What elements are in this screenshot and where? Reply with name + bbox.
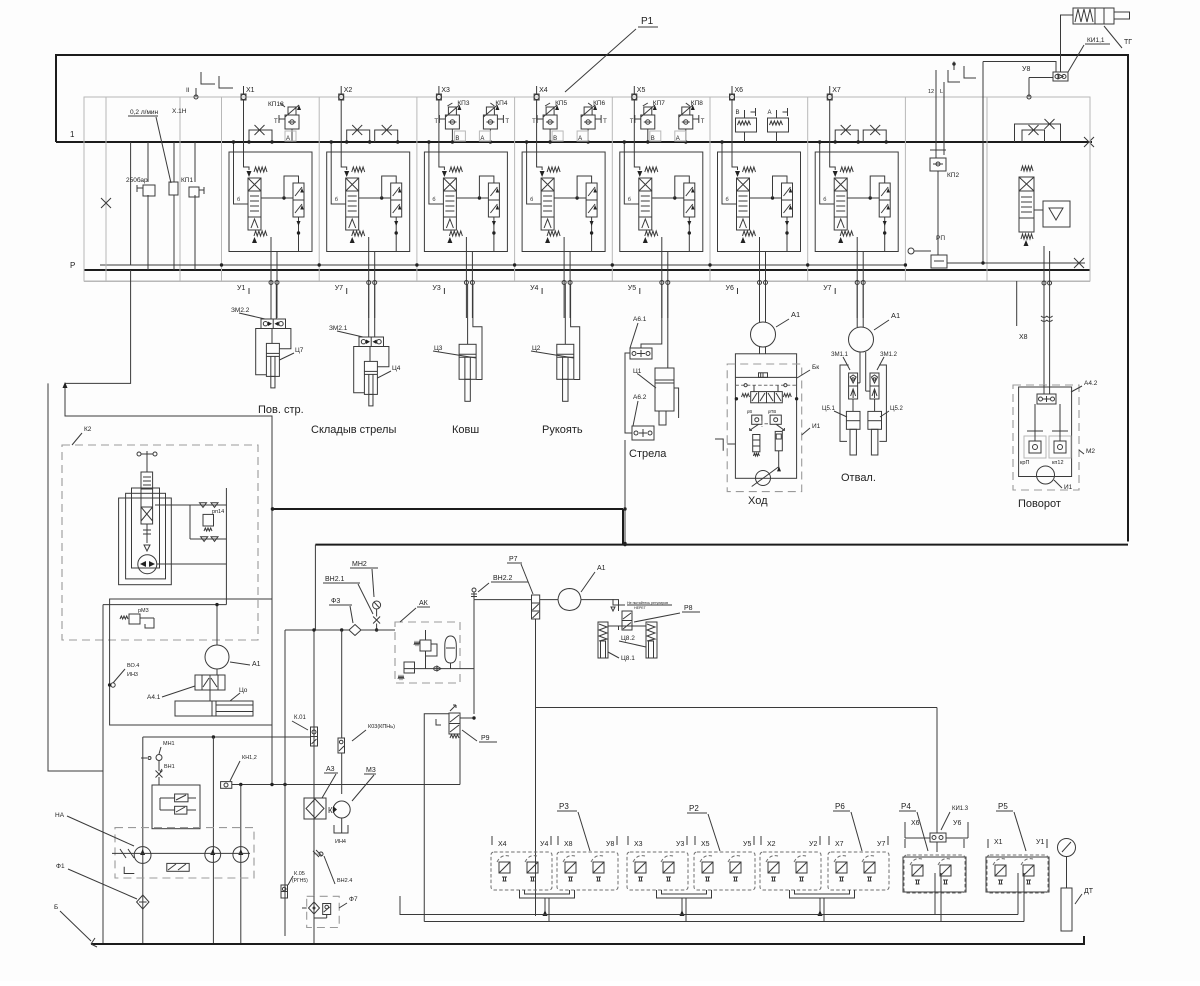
- wire: feed: [722, 142, 737, 204]
- travel block body: [735, 354, 796, 479]
- port box A: [285, 131, 296, 141]
- bypass 2 with closed port: [375, 130, 398, 142]
- valve M1: [189, 187, 199, 197]
- cylinder Ц2: [557, 344, 574, 379]
- section divider: [709, 97, 711, 282]
- wire: spool to secondary: [847, 197, 879, 199]
- svg-text:Р2: Р2: [689, 804, 699, 813]
- wire: [641, 285, 662, 349]
- svg-text:КИ1,1: КИ1,1: [1087, 37, 1105, 44]
- valve A6.2: [632, 426, 654, 440]
- svg-text:Х.1Н: Х.1Н: [172, 108, 187, 115]
- break symbol top-left: [201, 72, 215, 84]
- spool spring top: [645, 167, 658, 172]
- svg-text:Х6: Х6: [911, 820, 920, 827]
- svg-text:Р4: Р4: [901, 802, 911, 811]
- cylinder Ц7: [266, 343, 279, 376]
- svg-text:Р9: Р9: [481, 735, 490, 742]
- wire: [564, 285, 566, 345]
- section divider: [514, 97, 516, 282]
- svg-text:КП6: КП6: [593, 100, 605, 107]
- svg-text:Р8: Р8: [684, 605, 693, 612]
- wire: [935, 70, 937, 158]
- hydraulic motor A1 (travel): [751, 322, 776, 347]
- wire: C8 manifold: [608, 625, 646, 627]
- main spool: [248, 178, 261, 230]
- wire: test line: [982, 62, 984, 264]
- relief valve КП6: [584, 107, 592, 115]
- wire: work line B: [471, 252, 473, 319]
- orifice element: [759, 373, 768, 378]
- svg-text:А3: А3: [326, 766, 335, 773]
- leader: [877, 357, 884, 370]
- svg-text:У3: У3: [676, 841, 684, 848]
- wire: [270, 285, 272, 320]
- wire: TG to KI1.1: [1061, 15, 1074, 72]
- valve 250bar: [143, 185, 155, 196]
- leader KI1.1: [1068, 45, 1084, 72]
- secondary valve: [782, 183, 793, 217]
- lock valve ЗМ2.2: [261, 319, 286, 329]
- wire: secondary drain: [786, 217, 788, 252]
- filter block F7: [307, 896, 340, 927]
- valve KP1: [169, 182, 178, 195]
- section body outline: [522, 152, 605, 252]
- svg-text:У1: У1: [237, 285, 245, 292]
- svg-text:К03(КПНь): К03(КПНь): [368, 724, 395, 730]
- wire: tank line left: [48, 383, 103, 771]
- wire: KP1 drain: [194, 195, 196, 270]
- wire: spool to secondary: [652, 197, 684, 199]
- svg-text:Т: Т: [603, 119, 607, 125]
- wire: [735, 376, 796, 378]
- brake valve left: [753, 435, 760, 452]
- wire: [1059, 404, 1061, 431]
- bypass 2 with closed port: [863, 130, 886, 142]
- svg-text:КП4: КП4: [495, 100, 507, 107]
- servo elements: [146, 524, 148, 543]
- secondary valve: [488, 183, 499, 217]
- svg-text:У4: У4: [540, 841, 548, 848]
- section divider: [416, 97, 418, 282]
- wire: [1034, 404, 1036, 431]
- wire: KP1 drain: [147, 195, 149, 270]
- connector pair Х8/У8: [557, 852, 618, 890]
- svg-text:Х1: Х1: [994, 839, 1003, 846]
- cylinder Ц3: [459, 344, 476, 379]
- wire: pressure bus 1: [56, 141, 1092, 143]
- port box A: [577, 131, 588, 141]
- control cylinder Co: [175, 701, 253, 716]
- svg-text:У7: У7: [877, 841, 885, 848]
- svg-text:0,2 л/мин: 0,2 л/мин: [130, 109, 159, 116]
- svg-text:У1: У1: [1036, 839, 1044, 846]
- connector Х4: [534, 94, 539, 100]
- svg-text:М2: М2: [1086, 448, 1095, 455]
- wire: drop to bus: [624, 440, 626, 544]
- wire: P4 port bracket: [905, 837, 930, 839]
- wire: lower header: [315, 544, 1128, 546]
- svg-text:В: В: [553, 136, 557, 142]
- plugged port X on bus 1: [1084, 137, 1094, 147]
- spool spring top: [449, 167, 462, 172]
- svg-text:Х2: Х2: [767, 841, 776, 848]
- svg-text:А1: А1: [252, 661, 261, 668]
- wire: to P9: [473, 600, 475, 714]
- svg-text:Х2: Х2: [344, 87, 353, 94]
- svg-text:250бар: 250бар: [126, 176, 148, 184]
- svg-text:И1: И1: [812, 423, 821, 430]
- svg-text:II: II: [186, 87, 190, 94]
- svg-text:Ф1: Ф1: [56, 863, 65, 870]
- wire: AK internal: [404, 668, 474, 670]
- secondary valve: [391, 183, 402, 217]
- cylinder Ц4: [364, 361, 377, 394]
- wire: [376, 609, 378, 617]
- wire: P9 drain: [424, 714, 449, 922]
- spool spring top: [743, 167, 756, 172]
- svg-text:Ковш: Ковш: [452, 424, 479, 436]
- wire: [450, 663, 452, 669]
- main spool: [443, 178, 456, 230]
- wire: drain bus 2: [424, 921, 1024, 923]
- valve A6.1: [630, 348, 652, 359]
- valve block frame: [84, 97, 1090, 281]
- connector Х5: [632, 94, 637, 100]
- block NA dashed: [115, 828, 254, 878]
- svg-text:Х7: Х7: [832, 87, 841, 94]
- svg-text:Х5: Х5: [637, 87, 646, 94]
- wire: [759, 285, 761, 323]
- svg-text:б: б: [335, 197, 338, 203]
- wire: [368, 285, 370, 338]
- svg-text:Ц5.2: Ц5.2: [890, 406, 903, 412]
- svg-text:крП: крП: [1020, 460, 1029, 466]
- svg-text:Т: Т: [274, 119, 278, 125]
- wire: feed from band to pumps: [130, 142, 132, 265]
- secondary valve: [684, 183, 695, 217]
- wire: [145, 618, 154, 628]
- svg-text:У6: У6: [953, 820, 961, 827]
- wire: P7 line: [474, 599, 532, 601]
- connector pair Х4/У4: [491, 852, 552, 890]
- svg-text:КП7: КП7: [653, 100, 665, 107]
- svg-text:Р: Р: [70, 261, 75, 270]
- svg-text:У8: У8: [1022, 66, 1030, 73]
- leader B: [60, 911, 91, 941]
- svg-text:ВН2.2: ВН2.2: [493, 575, 513, 582]
- connector Х6: [730, 94, 735, 100]
- check point KI1.1: [1053, 72, 1068, 81]
- travel control valve: [751, 392, 783, 403]
- wire: rod side: [256, 329, 267, 375]
- svg-text:МН1: МН1: [163, 741, 175, 747]
- connector Х1: [241, 94, 246, 100]
- wire: secondary drain: [493, 217, 495, 252]
- svg-text:б: б: [726, 197, 729, 203]
- wire: [141, 757, 147, 759]
- svg-text:А1: А1: [891, 311, 900, 320]
- wire: KP1 feed: [173, 142, 175, 182]
- svg-text:(РГН5): (РГН5): [292, 878, 308, 884]
- spool spring bottom: [741, 237, 746, 243]
- wire: secondary drain: [298, 217, 300, 252]
- wire: [216, 605, 218, 645]
- wire: [369, 347, 371, 362]
- wire: shaft: [112, 852, 250, 854]
- wire: [157, 563, 226, 565]
- section divider: [611, 97, 613, 282]
- spool spring top: [254, 167, 267, 172]
- wire: work line B: [862, 252, 864, 319]
- valve KP2: [930, 158, 946, 171]
- svg-text:К.01: К.01: [294, 715, 306, 721]
- svg-text:ЗМ1.1: ЗМ1.1: [831, 352, 849, 358]
- pressure transducer TG cylinder: [1073, 8, 1095, 24]
- wire: [341, 630, 343, 738]
- wire: [158, 777, 160, 785]
- wire: [209, 690, 211, 701]
- svg-text:рВ: рВ: [747, 409, 752, 414]
- wire: [1066, 857, 1068, 889]
- leader to KP1: [156, 117, 171, 183]
- svg-text:рМ3: рМ3: [138, 608, 149, 614]
- wire: [859, 352, 861, 383]
- svg-text:КП8: КП8: [691, 100, 703, 107]
- relief valve КП7: [644, 107, 652, 115]
- wire: work line B: [374, 252, 376, 319]
- lock valve ЗМ1.1: [849, 373, 858, 399]
- motor A1 (blade): [849, 327, 874, 352]
- cylinder C8.1: [598, 622, 608, 658]
- svg-text:б: б: [432, 197, 435, 203]
- wire: head side: [279, 329, 291, 349]
- wire: [943, 82, 945, 155]
- main spool (swing): [1019, 177, 1034, 232]
- block A4.2 body: [1019, 387, 1072, 477]
- wire: pump column: [212, 737, 214, 944]
- bypass with closed port: [835, 130, 858, 142]
- wire: [425, 630, 427, 640]
- wire: [473, 285, 482, 380]
- brake cylinder right: [775, 431, 782, 450]
- wire: P7 drain header: [536, 707, 938, 709]
- gauge (pressure): [1058, 839, 1076, 857]
- svg-text:Х4: Х4: [539, 87, 548, 94]
- svg-text:Т: Т: [505, 119, 509, 125]
- bypass 2: [1015, 124, 1061, 142]
- svg-text:НЕРЕГ: НЕРЕГ: [634, 606, 646, 610]
- svg-text:РП: РП: [936, 235, 945, 242]
- brake valve B: [736, 118, 757, 132]
- wire: filter line: [142, 737, 144, 944]
- svg-text:А4.1: А4.1: [147, 694, 161, 701]
- wire: [862, 285, 864, 328]
- svg-text:Р5: Р5: [998, 802, 1008, 811]
- spool spring top: [352, 167, 365, 172]
- spool spring bottom: [838, 237, 843, 243]
- wire: [549, 129, 551, 142]
- unloader valve in AK: [404, 662, 415, 673]
- svg-text:В: В: [736, 110, 740, 116]
- wire: [934, 873, 936, 915]
- wire: [674, 388, 679, 418]
- relief valve КП5: [546, 107, 554, 115]
- wire: [489, 129, 491, 142]
- svg-text:К.05: К.05: [294, 871, 305, 877]
- wire: feed: [527, 142, 542, 204]
- wire: [354, 347, 365, 393]
- wire: [1017, 873, 1019, 915]
- wire: KP1 feed: [194, 142, 196, 182]
- svg-text:Не пытайтесь регулиров: Не пытайтесь регулиров: [627, 601, 668, 605]
- wire: work line A: [856, 237, 858, 318]
- secondary valve: [293, 183, 304, 217]
- wire: return bus P: [84, 269, 1090, 271]
- aux valve: [167, 863, 189, 871]
- main spool: [834, 178, 847, 230]
- wire: [155, 504, 226, 506]
- wire: work line A: [465, 237, 467, 318]
- wire: [865, 352, 867, 391]
- wire: P7 drain: [535, 619, 537, 916]
- wire: [856, 285, 858, 328]
- wire: spool to secondary: [359, 197, 391, 199]
- wire: [540, 599, 558, 601]
- drain mark: [124, 867, 134, 874]
- svg-text:Ц4: Ц4: [392, 365, 401, 372]
- relief valve КП3: [448, 107, 456, 115]
- section divider: [221, 97, 223, 282]
- section divider: [318, 97, 320, 282]
- cylinder C5.1: [846, 411, 860, 429]
- wire: main drop line: [314, 545, 316, 630]
- wire: secondary pilot: [382, 176, 397, 198]
- svg-text:Х5: Х5: [701, 841, 710, 848]
- wire: secondary drain: [688, 217, 690, 252]
- svg-text:К2: К2: [84, 426, 92, 433]
- svg-text:Х3: Х3: [634, 841, 643, 848]
- wire: secondary pilot: [773, 176, 788, 198]
- svg-text:рПВ: рПВ: [768, 409, 776, 414]
- relief valve КП8: [682, 107, 690, 115]
- accumulator: [445, 636, 457, 663]
- svg-text:Отвал.: Отвал.: [841, 472, 876, 484]
- wire: [874, 399, 876, 411]
- wire: inter-section line: [100, 264, 905, 266]
- svg-text:У3: У3: [432, 285, 440, 292]
- wire: [341, 753, 343, 794]
- section divider: [179, 97, 181, 282]
- wire: left side: [625, 353, 632, 433]
- wire: pilot feed: [143, 736, 311, 738]
- svg-text:Ц8.1: Ц8.1: [621, 655, 635, 662]
- spool spring bottom: [350, 237, 355, 243]
- brake valve A: [768, 118, 789, 132]
- wire: spool to secondary: [750, 197, 782, 199]
- section divider: [904, 97, 906, 282]
- cylinder C5.2: [868, 411, 882, 429]
- wire: KN1.2 line: [232, 784, 460, 786]
- wire: secondary drain: [591, 217, 593, 252]
- wire: work line A: [563, 237, 565, 318]
- wire: feed: [429, 142, 444, 204]
- wire: [376, 624, 378, 631]
- line break marks: [1041, 316, 1053, 322]
- pump circle K2: [138, 555, 157, 574]
- cylinder C1: [655, 368, 674, 411]
- svg-text:ВН2.4: ВН2.4: [337, 878, 352, 884]
- svg-text:К: К: [328, 806, 333, 815]
- wire: secondary pilot: [284, 176, 299, 198]
- connector Х2: [339, 94, 344, 100]
- connector pair Х1/У1: [986, 857, 1049, 892]
- tank D1: [1061, 888, 1072, 931]
- connector Х3: [436, 94, 441, 100]
- pump 1: [134, 847, 151, 864]
- port box A: [479, 131, 490, 141]
- section divider: [807, 97, 809, 282]
- wire: [275, 285, 277, 320]
- plug port: [908, 248, 914, 254]
- wire: feed: [624, 142, 639, 204]
- wire: [685, 129, 687, 142]
- wire: feed: [820, 142, 835, 204]
- pump A1 circle: [558, 589, 581, 611]
- wire: frames: [840, 365, 849, 441]
- svg-text:ВО.4: ВО.4: [127, 663, 139, 669]
- svg-text:ТГ: ТГ: [1124, 39, 1132, 46]
- section body outline: [327, 152, 410, 252]
- svg-text:б: б: [237, 197, 240, 203]
- svg-text:Ц5.1: Ц5.1: [822, 406, 835, 412]
- svg-text:А: А: [676, 136, 680, 142]
- wire: [103, 604, 226, 606]
- secondary valve: [879, 183, 890, 217]
- main spool: [346, 178, 359, 230]
- wire: [937, 171, 939, 255]
- spool springs (swing): [1021, 166, 1033, 171]
- connector pair Х3/У3: [627, 852, 688, 890]
- section divider: [986, 97, 988, 282]
- travel block dashed: [727, 364, 802, 492]
- wire: [189, 505, 191, 539]
- wire: return header drop: [622, 509, 624, 545]
- nested outlines: [119, 498, 172, 585]
- spool spring bottom: [252, 237, 257, 243]
- wire: return header: [273, 508, 624, 510]
- svg-text:А1: А1: [597, 565, 606, 572]
- wire: pilot rail: [735, 384, 796, 386]
- svg-text:КП5: КП5: [555, 100, 567, 107]
- wire: [271, 329, 273, 344]
- svg-text:1: 1: [70, 130, 75, 139]
- spool spring bottom: [545, 237, 550, 243]
- svg-text:А: А: [578, 136, 582, 142]
- wire: spool to secondary: [554, 197, 586, 199]
- wire: feed: [234, 142, 249, 204]
- leader: [843, 357, 850, 370]
- svg-text:А6.2: А6.2: [633, 394, 647, 401]
- svg-text:У7: У7: [823, 285, 831, 292]
- wire: filter line: [285, 629, 349, 631]
- wire: to P8: [581, 600, 619, 611]
- block AK dashed: [395, 622, 460, 683]
- main spool: [541, 178, 554, 230]
- wire: [291, 129, 293, 142]
- svg-text:Т: Т: [701, 119, 705, 125]
- svg-text:12: 12: [928, 89, 934, 95]
